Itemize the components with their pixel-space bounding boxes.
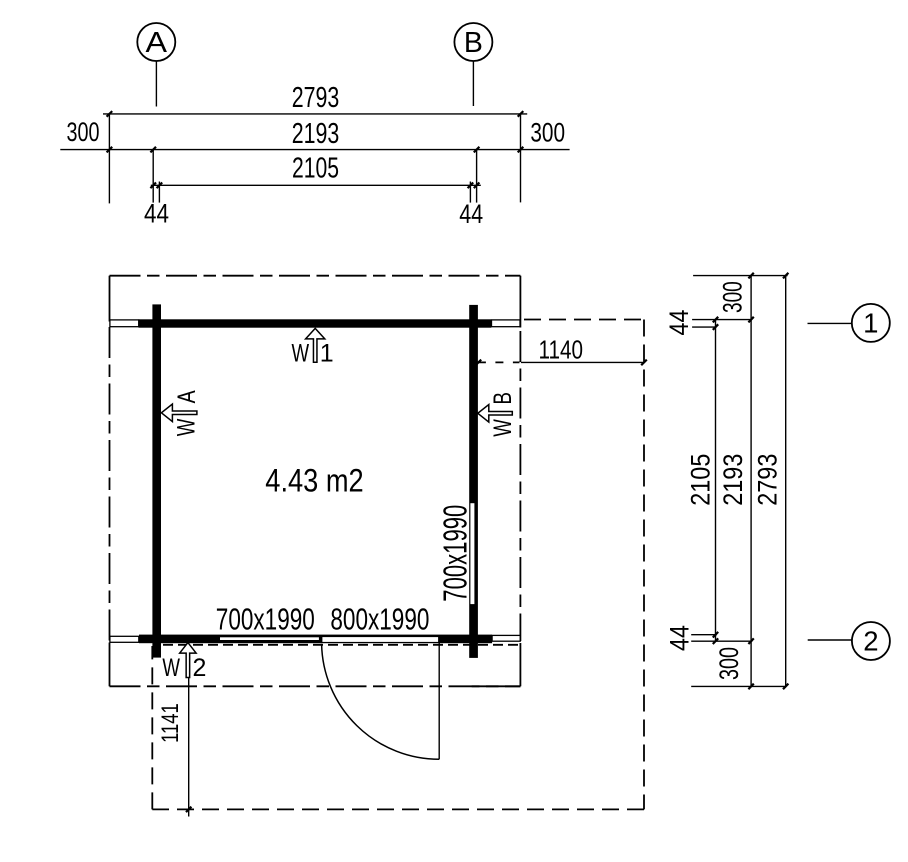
svg-text:2193: 2193 (292, 118, 340, 150)
marker arrow WB (478, 392, 517, 437)
door leaf (438, 638, 440, 759)
svg-text:2: 2 (192, 654, 206, 682)
log end top-left (110, 320, 139, 327)
extension line grid2 outer (691, 640, 752, 642)
window 700x1990 opening in wall W2 (220, 637, 319, 640)
extension line grid1 inner (692, 326, 716, 328)
svg-text:W: W (489, 419, 517, 437)
terrace dashed outline (152, 320, 644, 810)
svg-text:44: 44 (459, 199, 483, 229)
dimension line 2193/300 top (60, 117, 569, 152)
extension line grid1 outer (692, 319, 752, 321)
svg-text:800x1990: 800x1990 (330, 602, 429, 637)
marker arrow W1 (292, 328, 334, 367)
log end top-right (492, 320, 521, 327)
svg-text:1: 1 (863, 307, 878, 338)
svg-text:2793: 2793 (292, 82, 340, 114)
svg-text:44: 44 (144, 198, 169, 228)
dimension 1141 (below wall W2) (157, 645, 191, 817)
dimension 1140 (right of wall B) (476, 335, 647, 366)
svg-text:700x1990: 700x1990 (216, 602, 315, 637)
grid bubble 2 (808, 622, 890, 660)
svg-text:1140: 1140 (539, 335, 584, 365)
door 800x1990 opening in wall W2 (322, 637, 438, 642)
svg-text:2793: 2793 (752, 454, 782, 506)
svg-text:300: 300 (67, 117, 100, 147)
svg-text:A: A (173, 390, 201, 403)
dimension line 2793 top (103, 82, 527, 117)
svg-text:4.43 m2: 4.43 m2 (265, 463, 363, 499)
log end bottom-right (492, 635, 520, 641)
svg-text:2193: 2193 (718, 454, 748, 506)
svg-text:44: 44 (664, 310, 694, 336)
extension line bottom (691, 685, 786, 687)
wall W2 (bottom) (139, 635, 492, 644)
roof outline dash-dot rectangle (110, 276, 521, 687)
wall B (right) (469, 305, 478, 658)
svg-text:W: W (292, 339, 310, 367)
svg-text:700x1990: 700x1990 (437, 505, 474, 602)
svg-text:2105: 2105 (686, 454, 716, 506)
svg-text:B: B (489, 392, 517, 405)
marker arrow W2 (162, 643, 206, 682)
extension line grid2 inner (691, 634, 717, 636)
svg-text:W: W (162, 654, 180, 682)
grid A stem (155, 62, 157, 107)
svg-text:A: A (146, 27, 168, 59)
svg-text:W: W (172, 418, 200, 436)
grid bubble B (454, 23, 492, 61)
marker arrow WA (161, 390, 200, 436)
grid bubble 1 (808, 304, 890, 342)
svg-text:300: 300 (718, 281, 748, 313)
top extension lines (109, 113, 520, 203)
dashed line below bottom wall (163, 644, 520, 646)
svg-text:44: 44 (664, 625, 694, 651)
wall A (left) (152, 304, 161, 657)
svg-text:300: 300 (714, 647, 744, 680)
dimension line 2793 right (752, 273, 788, 689)
svg-text:2105: 2105 (292, 153, 339, 185)
svg-text:2: 2 (863, 626, 878, 657)
grid bubble A (137, 23, 175, 61)
wall W1 (top) (139, 319, 492, 327)
svg-text:1: 1 (320, 339, 334, 367)
svg-text:1141: 1141 (157, 703, 184, 743)
dashed lead-in of 1140 dimension (478, 361, 520, 363)
door swing arc (322, 644, 440, 759)
grid B stem (472, 62, 474, 107)
svg-text:300: 300 (530, 117, 565, 147)
window 700x1990 in wall B (470, 503, 474, 604)
log end bottom-left (110, 636, 139, 642)
dimension line 2105/44 right (664, 310, 718, 652)
extension line top (693, 275, 788, 277)
svg-text:B: B (464, 27, 483, 59)
dimension line 2105 top (150, 153, 480, 189)
dimension line 2193/300 right (714, 273, 754, 689)
